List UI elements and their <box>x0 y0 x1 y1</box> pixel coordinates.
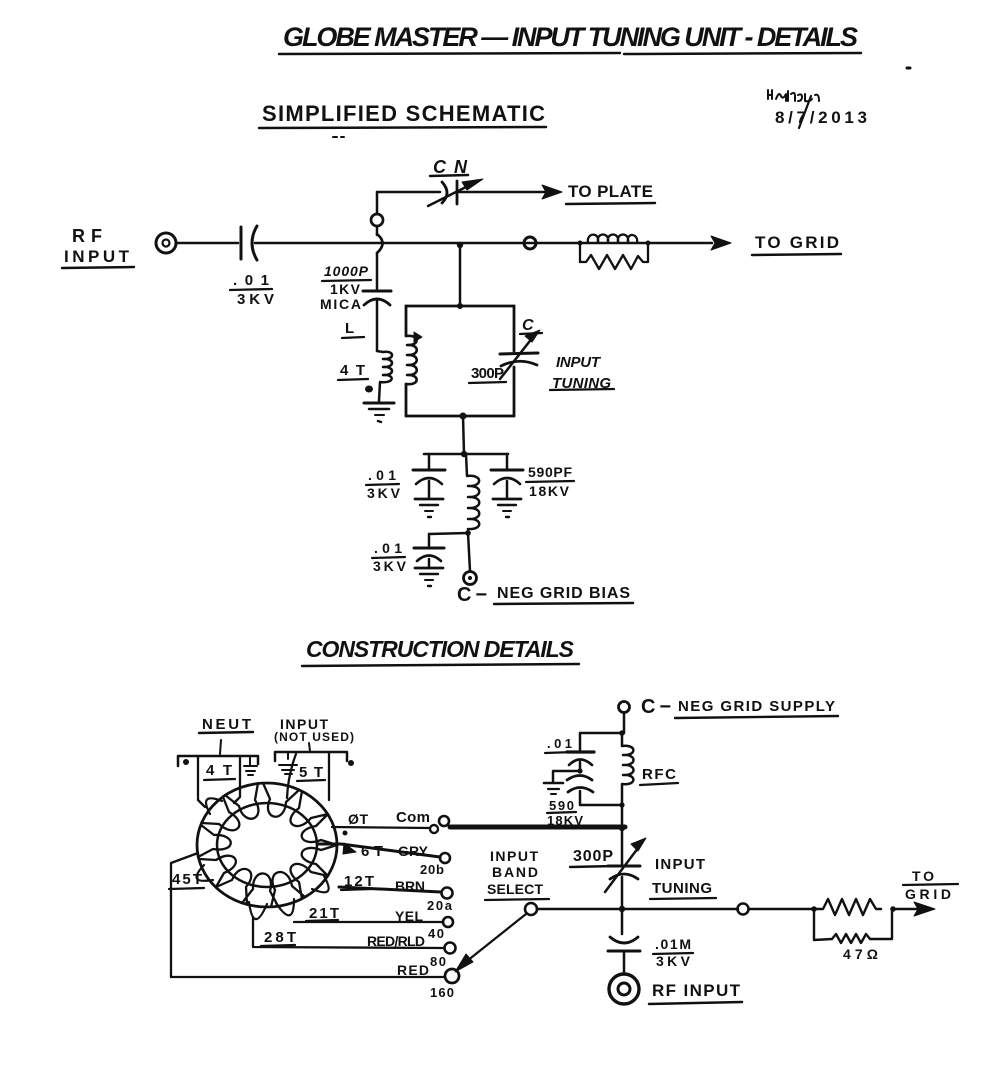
variable capacitor 300P (construction) <box>570 828 646 909</box>
wire tank to bypass network <box>463 416 464 454</box>
tap 12T BRN wire <box>339 873 453 913</box>
svg-text:BRN: BRN <box>395 878 425 894</box>
svg-text:590PF: 590PF <box>528 464 572 480</box>
junction dot on main wire <box>457 242 463 248</box>
label TO GRID (construction) <box>903 868 958 902</box>
label 45T and left wire <box>169 853 204 977</box>
variable capacitor CN <box>428 179 483 206</box>
wire to CN cap <box>377 191 440 194</box>
thick Com bus wire <box>450 825 625 830</box>
svg-text:C−: C− <box>641 696 671 718</box>
wire down to tank <box>459 245 462 306</box>
band select line <box>537 908 738 911</box>
tap 0T Com wire <box>332 809 449 836</box>
C- NEG GRID SUPPLY terminal <box>619 696 839 733</box>
label INPUT TUNING (construction) <box>650 856 716 899</box>
arrowhead to grid wire <box>711 236 731 250</box>
svg-text:RFC: RFC <box>642 766 676 783</box>
svg-text:Com: Com <box>396 809 430 826</box>
svg-text:45T: 45T <box>172 871 202 888</box>
capacitor .01 (construction) <box>545 736 594 771</box>
svg-text:C−: C− <box>457 584 487 606</box>
tap RED 160 wire <box>171 962 459 1000</box>
svg-text:NEG GRID BIAS: NEG GRID BIAS <box>497 585 630 602</box>
svg-text:12T: 12T <box>344 873 374 890</box>
svg-text:RF INPUT: RF INPUT <box>652 981 741 1000</box>
svg-text:NEG GRID SUPPLY: NEG GRID SUPPLY <box>678 698 835 715</box>
label INPUT (NOT USED) <box>274 716 354 751</box>
svg-text:TO: TO <box>912 868 934 884</box>
svg-text:.01: .01 <box>233 272 269 289</box>
svg-text:4T: 4T <box>340 362 365 379</box>
connector circle on main wire <box>524 237 536 249</box>
svg-text:5T: 5T <box>299 764 323 781</box>
main wire C1 to grid arrow <box>255 242 712 245</box>
svg-text:C: C <box>522 317 534 334</box>
svg-text:28T: 28T <box>264 929 296 946</box>
svg-text:GLOBE MASTER — INPUT TUNING UN: GLOBE MASTER — INPUT TUNING UNIT - DETAI… <box>283 22 858 52</box>
svg-text:.01: .01 <box>547 736 572 751</box>
INPUT 5T bracket <box>275 752 354 800</box>
C- terminal <box>464 572 477 585</box>
svg-text:4T: 4T <box>206 762 232 779</box>
connector circle on select line <box>738 904 749 915</box>
tap 6T GRY wire <box>317 843 450 877</box>
speck dot <box>907 67 910 70</box>
RF input jack (construction) <box>609 974 742 1004</box>
svg-text:8/7/2013: 8/7/2013 <box>775 108 867 127</box>
date 8/7/2013 <box>775 96 867 128</box>
svg-text:6T: 6T <box>361 843 383 860</box>
capacitor C4 .01/3KV left <box>366 454 445 517</box>
label C- NEG GRID BIAS <box>457 584 633 606</box>
signature Hutchins <box>768 90 819 101</box>
NEUT 4T bracket <box>178 756 258 807</box>
tank box wires <box>406 306 514 416</box>
parallel resistor 47ohm network <box>811 899 935 962</box>
svg-text:SELECT: SELECT <box>487 881 543 897</box>
RFC choke (construction) <box>622 733 678 828</box>
svg-text:INPUT: INPUT <box>64 247 130 266</box>
junction dots tank <box>457 303 463 309</box>
svg-text:80: 80 <box>430 954 446 969</box>
svg-text:INPUT: INPUT <box>556 354 602 371</box>
svg-text:INPUT: INPUT <box>655 856 705 873</box>
svg-text:160: 160 <box>430 985 454 1000</box>
toroid windings <box>198 783 337 907</box>
svg-text:300P: 300P <box>471 365 504 382</box>
svg-text:GRY: GRY <box>398 843 429 859</box>
svg-text:3KV: 3KV <box>367 485 401 501</box>
svg-text:RED/RLD: RED/RLD <box>367 933 425 949</box>
svg-text:CONSTRUCTION DETAILS: CONSTRUCTION DETAILS <box>306 636 575 662</box>
label TO PLATE <box>566 182 655 204</box>
svg-text:.01: .01 <box>368 467 396 483</box>
input jack J1 <box>156 233 176 253</box>
svg-text:3KV: 3KV <box>237 291 274 308</box>
junction dots RFC bottom <box>619 802 624 807</box>
wire J1 to C1 <box>176 242 238 245</box>
svg-text:L: L <box>345 320 354 337</box>
svg-text:20b: 20b <box>420 862 444 877</box>
svg-text:RF: RF <box>72 226 102 246</box>
parallel choke L2 over resistor R1 <box>578 235 651 270</box>
svg-text:RED: RED <box>397 962 429 978</box>
capacitor 590/18KV (construction) <box>547 776 622 829</box>
label INPUT TUNING (tank) <box>550 354 614 392</box>
toroid T2 core <box>197 783 337 907</box>
junction to C6 <box>465 530 471 536</box>
svg-text:SIMPLIFIED SCHEMATIC: SIMPLIFIED SCHEMATIC <box>262 101 545 126</box>
svg-text:1KV: 1KV <box>330 281 361 297</box>
junction dot <box>577 768 582 773</box>
ground under primary <box>364 403 394 422</box>
capacitor .01M/3KV (construction) <box>608 909 693 974</box>
svg-text:TUNING: TUNING <box>652 880 712 897</box>
capacitor C1 .01/3KV <box>230 226 274 308</box>
svg-text:ØT: ØT <box>348 811 368 827</box>
wire CN to plate arrow <box>459 191 545 194</box>
svg-text:18KV: 18KV <box>529 483 570 499</box>
label CN <box>430 157 468 177</box>
label RF INPUT <box>62 226 134 268</box>
wire to .01 cap <box>580 733 622 750</box>
svg-text:3KV: 3KV <box>373 558 407 574</box>
svg-text:(NOT USED): (NOT USED) <box>274 730 354 744</box>
label NEUT <box>199 716 253 754</box>
capacitor C5 590PF/18KV right <box>491 454 574 517</box>
band switch SW1 <box>455 903 537 972</box>
svg-text:TO GRID: TO GRID <box>755 233 839 252</box>
secondary coil on left edge <box>406 332 422 384</box>
svg-text:20a: 20a <box>427 898 453 913</box>
transformer T1 primary coil 4T <box>338 320 392 401</box>
RFC choke L3 <box>466 454 479 533</box>
junction dot <box>619 730 625 736</box>
inline connector circle <box>371 214 383 226</box>
svg-text:YEL: YEL <box>395 908 423 924</box>
svg-text:3KV: 3KV <box>656 953 691 969</box>
svg-text:GRID: GRID <box>905 886 951 902</box>
vertical wire to CN <box>376 192 379 235</box>
tap 28T RED/RLD wire <box>253 917 456 969</box>
svg-text:INPUT: INPUT <box>490 848 538 864</box>
capacitor C2 1000P 1KV MICA <box>320 253 391 351</box>
subtitle: SIMPLIFIED SCHEMATIC <box>259 101 546 137</box>
stub to ground <box>544 771 580 794</box>
svg-text:1000P: 1000P <box>324 263 369 279</box>
tap 21T YEL wire <box>294 905 453 941</box>
svg-text:TO PLATE: TO PLATE <box>568 182 653 201</box>
svg-text:590: 590 <box>549 798 574 813</box>
svg-text:47Ω: 47Ω <box>843 946 878 962</box>
svg-text:NEUT: NEUT <box>202 716 251 733</box>
svg-text:300P: 300P <box>573 848 613 865</box>
toroid outer loops <box>197 798 329 919</box>
label INPUT BAND SELECT <box>485 848 549 900</box>
svg-text:40: 40 <box>428 926 444 941</box>
svg-text:.01: .01 <box>374 540 402 556</box>
label TO GRID <box>752 233 841 255</box>
variable capacitor C3 300P <box>469 317 542 383</box>
capacitor C6 .01/3KV lower <box>372 534 444 586</box>
title: GLOBE MASTER - INPUT TUNING UNIT - DETAILS <box>279 22 861 54</box>
svg-text:.01M: .01M <box>655 936 691 952</box>
wire hop (vertical line over main wire) <box>377 234 383 253</box>
arrowhead to plate <box>542 185 562 199</box>
section title CONSTRUCTION DETAILS <box>302 636 579 666</box>
svg-text:BAND: BAND <box>492 864 538 880</box>
bypass rail <box>424 453 508 456</box>
svg-text:MICA: MICA <box>320 296 361 312</box>
wire to C- terminal <box>468 533 470 571</box>
